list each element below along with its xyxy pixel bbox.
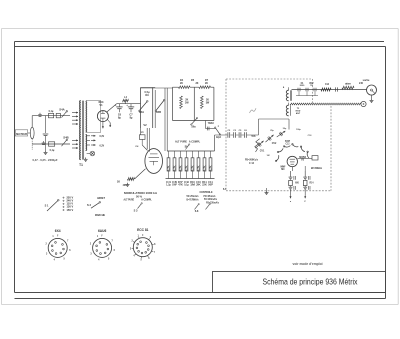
svg-text:C4: C4 [166,181,172,184]
svg-text:4,7K: 4,7K [196,165,200,171]
svg-text:2: 2 [45,243,47,245]
svg-text:8: 8 [154,244,156,246]
svg-text:4,7K: 4,7K [184,165,188,171]
svg-text:50=100mA/s: 50=100mA/s [204,198,218,201]
svg-text:500P: 500P [172,185,177,187]
svg-text:B=TERMA/s: B=TERMA/s [187,198,200,201]
svg-text:voir mode d'emploi: voir mode d'emploi [293,262,323,266]
svg-text:4,7K: 4,7K [190,165,194,171]
svg-text:3: 3 [130,249,132,251]
svg-text:C6: C6 [244,130,248,132]
svg-text:S 2: S 2 [87,203,92,207]
svg-text:A COMPL: A COMPL [189,141,201,144]
svg-text:+: + [115,103,117,107]
svg-text:S 1: S 1 [45,204,49,208]
svg-text:ECC 81: ECC 81 [137,228,149,232]
svg-text:T1: T1 [79,163,83,167]
svg-text:C12: C12 [285,143,290,145]
svg-text:C3: C3 [233,130,237,132]
svg-text:R5: R5 [191,79,195,82]
svg-text:C14: C14 [325,83,330,86]
svg-text:C8: C8 [172,182,178,184]
svg-text:150 V: 150 V [67,208,74,212]
svg-text:50P: 50P [208,185,213,187]
svg-text:7: 7 [154,252,156,254]
svg-text:5: 5 [108,258,110,260]
svg-text:6AU6: 6AU6 [98,229,107,233]
svg-text:F: F [142,235,144,237]
svg-text:0,1μ: 0,1μ [49,111,54,113]
svg-text:R10: R10 [190,182,195,184]
svg-text:sortie: sortie [363,79,370,82]
svg-text:CV1: CV1 [260,150,265,152]
svg-text:R4: R4 [180,79,184,82]
svg-text:R7: R7 [205,79,209,82]
svg-text:a: a [283,87,285,89]
svg-text:ALT PURE: ALT PURE [124,198,135,202]
svg-text:A COMPL: A COMPL [141,198,152,202]
svg-text:4,7K: 4,7K [172,165,176,171]
svg-text:6,3V: 6,3V [100,146,105,148]
svg-text:MC: MC [281,169,285,171]
svg-text:R11: R11 [202,182,207,184]
svg-text:BF 800kHz: BF 800kHz [311,166,323,170]
svg-text:+: + [126,103,128,107]
svg-text:ARRET: ARRET [97,196,105,200]
svg-text:F: F [305,201,307,203]
svg-text:C18: C18 [308,135,313,137]
svg-text:240: 240 [359,82,364,85]
svg-text:47K: 47K [178,184,183,187]
svg-text:4,7K: 4,7K [202,165,206,171]
svg-text:3W: 3W [185,103,189,105]
svg-text:TRAC: TRAC [208,122,215,125]
svg-text:3: 3 [46,253,48,255]
svg-text:R14: R14 [309,182,314,185]
svg-text:1K: 1K [117,181,120,184]
svg-text:4,7K: 4,7K [208,165,212,171]
svg-text:6: 6 [148,258,150,260]
svg-text:C 13: C 13 [249,163,255,165]
svg-text:2000: 2000 [300,85,306,87]
svg-text:50p: 50p [283,128,287,130]
svg-text:S6a: S6a [191,127,196,129]
svg-text:9: 9 [150,237,152,239]
svg-text:S4B: S4B [63,136,68,140]
svg-text:6: 6 [114,250,116,252]
svg-text:1M: 1M [267,155,270,157]
svg-text:680: 680 [295,183,299,185]
svg-text:22K: 22K [202,185,207,187]
svg-text:SECTEUR: SECTEUR [16,132,27,136]
svg-text:CONTROLE: CONTROLE [200,190,213,194]
svg-text:3W: 3W [206,103,210,105]
svg-text:1M: 1M [190,185,195,187]
svg-text:S4A: S4A [59,108,64,112]
svg-text:5: 5 [64,258,66,260]
svg-text:6,3V: 6,3V [100,136,105,138]
svg-text:R9: R9 [145,94,149,97]
svg-text:7: 7 [111,240,113,242]
svg-text:V3: V3 [301,159,305,162]
svg-text:C11: C11 [208,182,213,184]
svg-text:F: F [101,236,103,238]
svg-text:1: 1 [97,236,99,238]
svg-text:C2: C2 [227,130,231,132]
svg-text:6X4: 6X4 [55,229,61,233]
svg-text:ALT PURE: ALT PURE [175,141,187,144]
svg-text:R7: R7 [178,182,184,184]
svg-text:Schéma de principe 936 Métrix: Schéma de principe 936 Métrix [263,276,359,286]
svg-text:25p: 25p [270,130,274,132]
svg-text:1: 1 [52,236,54,238]
svg-text:F: F [218,126,220,128]
svg-text:C5: C5 [239,130,243,132]
svg-text:7K: 7K [310,85,313,87]
svg-text:CH: CH [135,146,139,148]
svg-text:4: 4 [54,259,56,262]
svg-text:S 3: S 3 [134,208,138,212]
svg-text:2K: 2K [206,100,209,102]
svg-text:50=25mA/s: 50=25mA/s [187,195,200,198]
svg-text:L4: L4 [124,96,127,99]
svg-text:8μ: 8μ [118,116,121,119]
svg-text:2: 2 [90,243,92,245]
svg-text:12pF: 12pF [216,137,222,139]
svg-text:FB=220mA/s: FB=220mA/s [206,202,220,205]
svg-text:2K: 2K [205,83,208,85]
svg-text:0,1μ: 0,1μ [184,185,189,187]
svg-text:2K: 2K [196,185,201,187]
svg-text:2K: 2K [185,100,188,102]
svg-text:FB=200Kc/s: FB=200Kc/s [245,158,258,162]
svg-text:atten: atten [345,82,351,85]
svg-text:C9: C9 [184,182,190,184]
svg-text:PO=25mA/s: PO=25mA/s [204,195,217,198]
svg-text:a: a [290,201,292,203]
svg-text:L1: L1 [141,131,144,134]
svg-text:5: 5 [140,259,142,261]
svg-text:4: 4 [98,259,100,262]
svg-text:F: F [57,236,59,238]
svg-text:4,7K: 4,7K [178,165,182,171]
svg-text:3: 3 [90,253,92,255]
svg-text:0,47 - 0,25 - 2200μF: 0,47 - 0,25 - 2200μF [33,158,58,162]
svg-text:1,2μ: 1,2μ [166,185,171,187]
svg-text:100p: 100p [296,129,301,131]
svg-text:7: 7 [67,240,69,242]
svg-text:2K: 2K [196,83,199,85]
svg-text:8μ: 8μ [130,116,133,119]
svg-text:50K: 50K [251,136,256,138]
svg-text:V2: V2 [143,123,147,127]
svg-text:C10: C10 [196,182,201,184]
svg-text:4,7K: 4,7K [166,165,170,171]
svg-text:6: 6 [69,250,71,252]
svg-text:CV2: CV2 [272,143,277,145]
svg-text:2K: 2K [180,83,183,85]
svg-text:S-8: S-8 [195,211,199,213]
svg-text:0,1μ: 0,1μ [50,150,55,152]
svg-text:MARCHE: MARCHE [95,213,105,217]
